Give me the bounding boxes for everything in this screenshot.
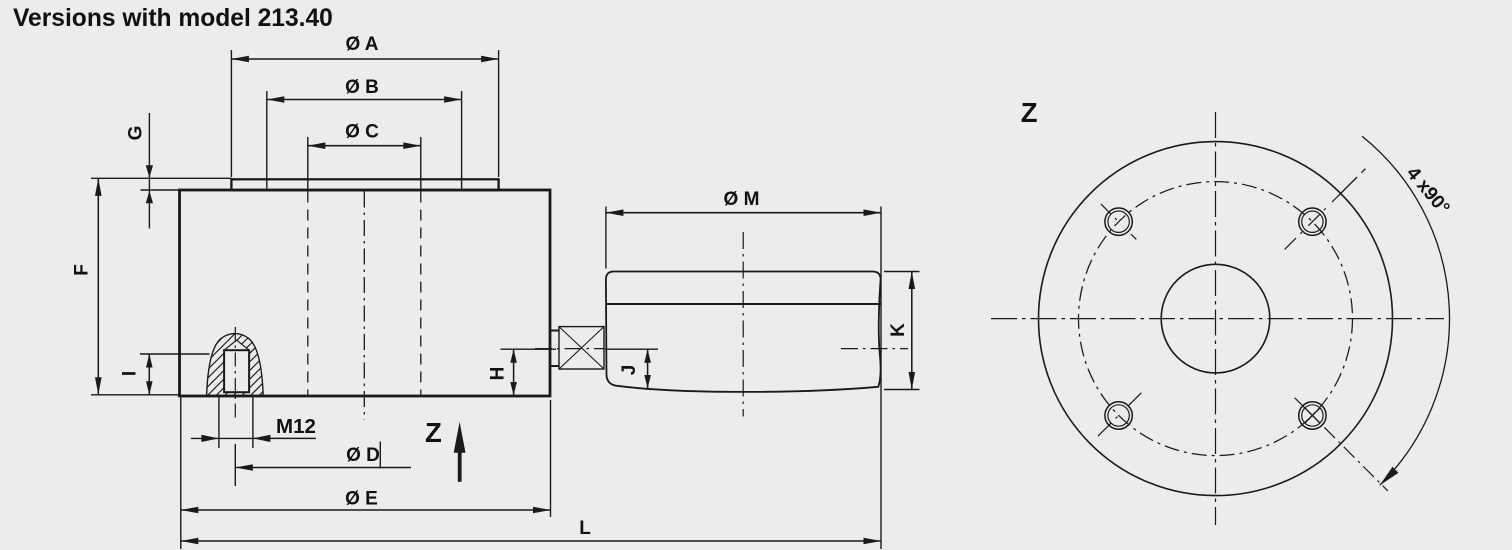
- cable boot axis: [742, 232, 744, 417]
- front view vertical axis: [1215, 112, 1217, 525]
- connector stub: [550, 331, 559, 367]
- body-top extension line: [141, 189, 180, 191]
- bolt circle: [1079, 182, 1353, 456]
- M12 threaded boss (hatched dome): [0, 325, 459, 400]
- svg-text:G: G: [126, 126, 147, 141]
- svg-text:Ø M: Ø M: [724, 189, 760, 210]
- svg-text:Ø A: Ø A: [345, 34, 378, 55]
- dimension J extension: [605, 348, 658, 350]
- svg-text:Versions with model 213.40: Versions with model 213.40: [13, 5, 333, 32]
- view direction Z label: [425, 417, 442, 448]
- dimension H extension: [501, 348, 557, 350]
- dimension A line: [231, 56, 498, 63]
- top plate: [231, 179, 498, 190]
- pitch annotation arc: [1362, 136, 1449, 485]
- connector axis line: [535, 348, 908, 350]
- load cell body outline: [180, 190, 551, 396]
- label 4 x90: [1402, 163, 1454, 219]
- dimension D extension: [234, 444, 236, 486]
- dimension J: [644, 349, 651, 388]
- M12 tapped hole: [224, 340, 249, 392]
- dimension K: [909, 272, 916, 390]
- svg-text:Z: Z: [425, 417, 442, 448]
- svg-text:L: L: [579, 518, 591, 539]
- cable boot separation line: [606, 303, 881, 305]
- mounting hole top-right: [1285, 169, 1366, 250]
- top reference line: [91, 177, 231, 179]
- view direction Z arrow: [454, 422, 466, 482]
- hidden line left (hole edge C): [307, 192, 309, 395]
- dimension C line: [308, 142, 421, 149]
- label A: [345, 34, 378, 55]
- bottom-left extension line: [91, 394, 180, 396]
- label L: [579, 518, 591, 539]
- dimension E line: [181, 507, 551, 514]
- mounting hole bottom-left: [1098, 393, 1141, 436]
- thread-depth reference line: [140, 353, 210, 355]
- svg-text:H: H: [488, 367, 509, 381]
- label K: [888, 323, 909, 337]
- dimension K extensions: [884, 272, 920, 390]
- hole center line: [234, 327, 236, 418]
- label J: [619, 365, 640, 376]
- label M: [724, 189, 760, 210]
- svg-text:F: F: [72, 264, 93, 276]
- center hole circle: [1161, 264, 1270, 373]
- svg-text:Ø E: Ø E: [345, 489, 378, 510]
- hidden line right (hole edge C): [420, 192, 422, 395]
- label D: [346, 445, 380, 466]
- dimension M extensions: [606, 207, 881, 550]
- dimension H: [510, 349, 517, 395]
- front view label Z: [1021, 97, 1038, 128]
- label F: [72, 264, 93, 276]
- body center line: [363, 192, 365, 421]
- M12 arrows: [191, 435, 316, 442]
- svg-text:M12: M12: [276, 415, 316, 438]
- dimension B line: [267, 96, 462, 103]
- dimension A extensions: [231, 50, 498, 177]
- dimension M line: [606, 209, 881, 216]
- mounting hole bottom-right: [1295, 398, 1388, 491]
- front view horizontal axis: [991, 318, 1444, 320]
- dimension L line: [181, 538, 881, 545]
- svg-text:Ø D: Ø D: [346, 445, 380, 466]
- svg-text:Ø B: Ø B: [345, 77, 379, 98]
- M12 extension lines: [219, 398, 253, 449]
- svg-text:K: K: [888, 323, 909, 337]
- dimension D tick: [379, 442, 381, 469]
- cable boot outline: [606, 272, 881, 392]
- dimension D line: [235, 464, 411, 471]
- svg-text:Z: Z: [1021, 97, 1038, 128]
- dimension E extensions: [181, 398, 551, 550]
- outer circle: [1039, 142, 1393, 496]
- label M12: [276, 415, 316, 438]
- svg-text:J: J: [619, 365, 640, 376]
- label G: [126, 126, 147, 141]
- label C: [345, 122, 379, 143]
- title text: [13, 5, 333, 32]
- mounting hole top-left: [1101, 204, 1136, 239]
- svg-text:I: I: [120, 371, 141, 376]
- dimension B extensions: [267, 91, 462, 189]
- svg-text:Ø C: Ø C: [345, 122, 379, 143]
- label E: [345, 489, 378, 510]
- dimension C extensions: [308, 137, 421, 189]
- dimension I: [146, 354, 153, 395]
- dimension G arrows: [146, 113, 153, 229]
- label I: [120, 371, 141, 376]
- label B: [345, 77, 379, 98]
- label H: [488, 367, 509, 381]
- dimension F: [95, 178, 102, 394]
- connector square: [559, 327, 604, 369]
